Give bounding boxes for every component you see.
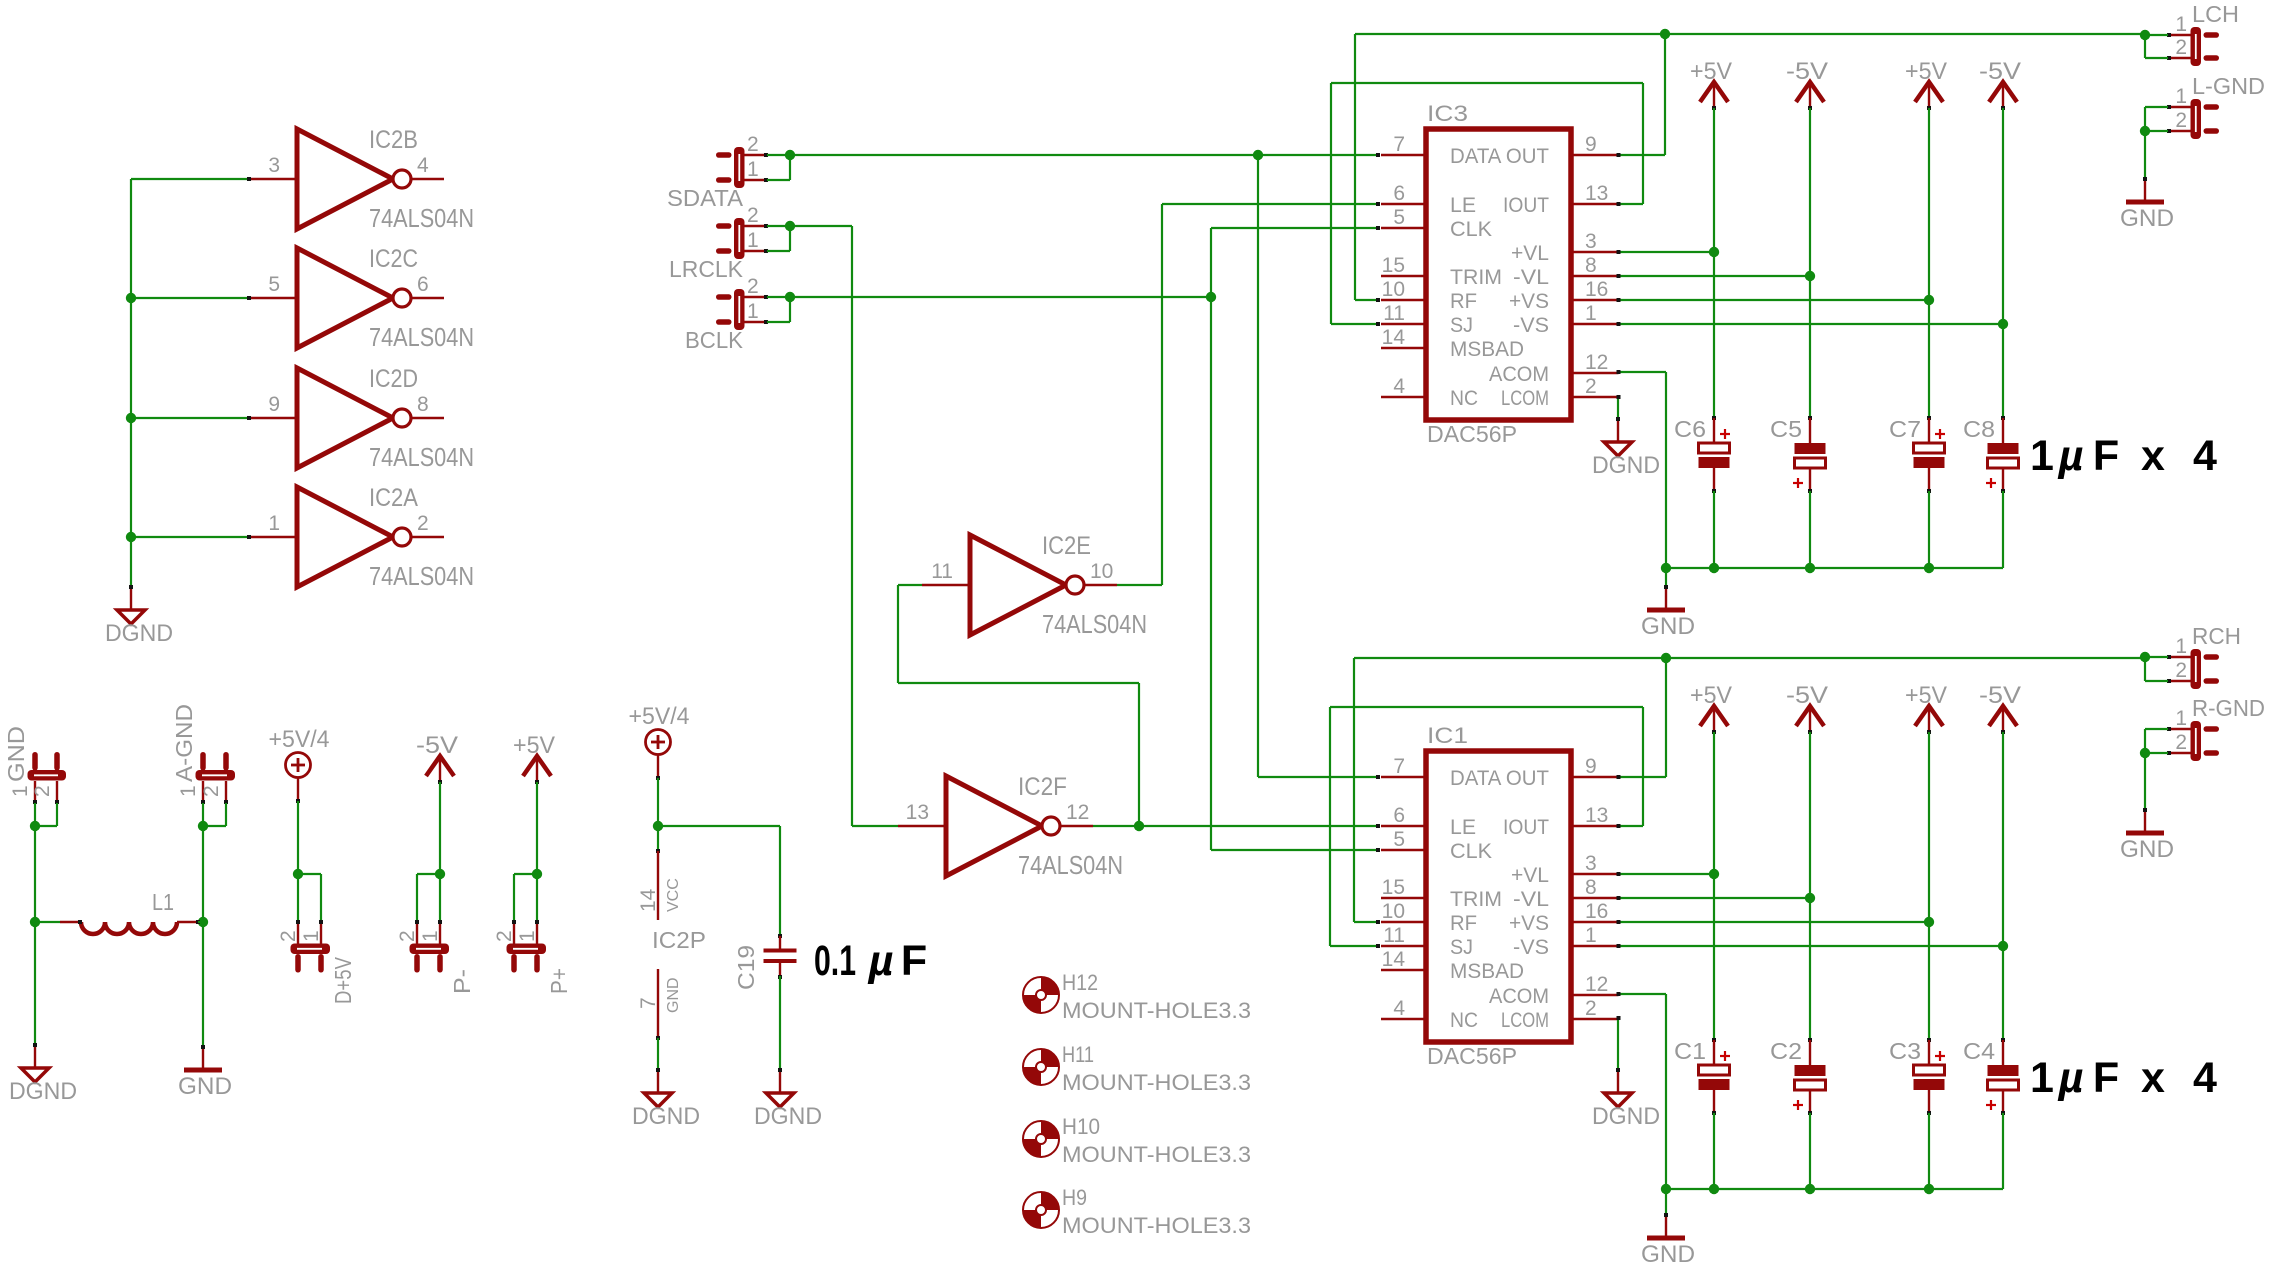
svg-text:2: 2 (277, 930, 300, 942)
svg-text:2: 2 (2175, 36, 2187, 59)
svg-text:IOUT: IOUT (1503, 194, 1549, 217)
svg-text:74ALS04N: 74ALS04N (369, 203, 474, 233)
svg-text:6: 6 (417, 273, 429, 296)
svg-text:DGND: DGND (105, 620, 173, 647)
svg-text:H10: H10 (1062, 1114, 1100, 1139)
svg-text:IC2E: IC2E (1042, 532, 1091, 560)
svg-text:GND: GND (2120, 205, 2174, 232)
svg-text:11: 11 (1383, 924, 1405, 947)
svg-text:1: 1 (2175, 635, 2187, 658)
svg-text:LE: LE (1450, 816, 1476, 839)
svg-text:1: 1 (747, 300, 759, 323)
svg-text:12: 12 (1066, 801, 1089, 824)
svg-text:DATA OUT: DATA OUT (1450, 145, 1549, 168)
svg-text:C8: C8 (1963, 416, 1995, 442)
svg-text:0.1: 0.1 (814, 937, 856, 985)
svg-text:+5V: +5V (513, 732, 555, 759)
svg-text:1: 1 (1585, 302, 1597, 325)
svg-text:IC2P: IC2P (652, 927, 706, 953)
svg-text:IC2F: IC2F (1018, 773, 1067, 801)
svg-text:1: 1 (9, 785, 32, 797)
svg-text:4: 4 (1393, 375, 1405, 398)
svg-text:-VS: -VS (1513, 314, 1549, 337)
svg-text:+VL: +VL (1511, 242, 1549, 265)
svg-text:-5V: -5V (1979, 58, 2021, 85)
svg-text:+5V: +5V (1690, 58, 1732, 85)
svg-text:1: 1 (2175, 13, 2187, 36)
svg-text:+VL: +VL (1511, 864, 1549, 887)
svg-text:C7: C7 (1889, 416, 1921, 442)
svg-text:14: 14 (637, 888, 660, 912)
svg-text:13: 13 (1585, 804, 1608, 827)
svg-text:6: 6 (1393, 804, 1405, 827)
svg-text:1: 1 (2030, 432, 2054, 480)
svg-text:10: 10 (1382, 278, 1405, 301)
svg-text:8: 8 (417, 393, 429, 416)
svg-text:3: 3 (1585, 230, 1597, 253)
svg-text:7: 7 (637, 997, 660, 1009)
svg-text:+VS: +VS (1509, 290, 1549, 313)
svg-text:+5V/4: +5V/4 (269, 726, 330, 753)
svg-text:14: 14 (1382, 326, 1406, 349)
svg-text:IOUT: IOUT (1503, 816, 1549, 839)
svg-text:1: 1 (419, 930, 442, 942)
svg-text:C4: C4 (1963, 1038, 1995, 1064)
svg-text:12: 12 (1585, 351, 1608, 374)
svg-text:LE: LE (1450, 194, 1476, 217)
svg-text:F: F (901, 937, 927, 985)
svg-text:4: 4 (2193, 1054, 2217, 1102)
svg-text:DGND: DGND (1592, 452, 1660, 479)
svg-text:R-GND: R-GND (2192, 695, 2265, 721)
svg-text:IC2A: IC2A (369, 484, 418, 512)
svg-text:6: 6 (1393, 182, 1405, 205)
svg-text:µ: µ (2058, 1054, 2084, 1102)
svg-text:MOUNT-HOLE3.3: MOUNT-HOLE3.3 (1062, 1213, 1251, 1238)
svg-text:13: 13 (906, 801, 929, 824)
svg-text:10: 10 (1382, 900, 1405, 923)
svg-text:MOUNT-HOLE3.3: MOUNT-HOLE3.3 (1062, 998, 1251, 1023)
svg-text:5: 5 (1393, 206, 1405, 229)
svg-text:7: 7 (1393, 133, 1405, 156)
svg-text:RF: RF (1450, 290, 1477, 313)
svg-text:2: 2 (2175, 109, 2187, 132)
svg-text:DATA OUT: DATA OUT (1450, 767, 1549, 790)
svg-text:IC2C: IC2C (369, 245, 418, 273)
svg-text:1: 1 (747, 229, 759, 252)
svg-text:14: 14 (1382, 948, 1406, 971)
svg-text:D+5V: D+5V (330, 956, 356, 1004)
svg-text:P+: P+ (546, 968, 572, 994)
svg-text:x: x (2141, 432, 2165, 480)
svg-text:ACOM: ACOM (1489, 363, 1549, 386)
svg-text:LCOM: LCOM (1501, 387, 1549, 410)
svg-text:9: 9 (268, 393, 280, 416)
svg-text:µ: µ (2058, 432, 2084, 480)
svg-text:4: 4 (417, 154, 429, 177)
svg-text:10: 10 (1090, 560, 1113, 583)
svg-text:11: 11 (1383, 302, 1405, 325)
svg-text:2: 2 (1585, 997, 1597, 1020)
svg-text:8: 8 (1585, 876, 1597, 899)
svg-text:74ALS04N: 74ALS04N (1018, 850, 1123, 880)
svg-text:SDATA: SDATA (667, 185, 744, 211)
svg-text:-5V: -5V (416, 732, 458, 759)
svg-text:DAC56P: DAC56P (1427, 421, 1517, 447)
svg-text:C3: C3 (1889, 1038, 1921, 1064)
svg-text:H12: H12 (1062, 970, 1098, 995)
svg-text:F: F (2093, 432, 2119, 480)
svg-text:2: 2 (2175, 659, 2187, 682)
svg-text:GND: GND (178, 1073, 232, 1100)
svg-text:P-: P- (449, 969, 475, 994)
svg-text:x: x (2141, 1054, 2165, 1102)
svg-text:SJ: SJ (1450, 936, 1473, 959)
svg-text:GND: GND (1641, 613, 1695, 640)
svg-text:SJ: SJ (1450, 314, 1473, 337)
svg-text:GND: GND (665, 977, 682, 1013)
svg-text:+5V: +5V (1905, 682, 1947, 709)
svg-text:-VL: -VL (1513, 266, 1549, 289)
svg-text:11: 11 (931, 560, 953, 583)
svg-text:MSBAD: MSBAD (1450, 338, 1524, 361)
svg-text:C6: C6 (1674, 416, 1706, 442)
svg-text:DGND: DGND (1592, 1103, 1660, 1130)
svg-text:1: 1 (300, 930, 323, 942)
svg-text:12: 12 (1585, 973, 1608, 996)
svg-text:-5V: -5V (1786, 682, 1828, 709)
svg-text:2: 2 (2175, 731, 2187, 754)
svg-text:1: 1 (1585, 924, 1597, 947)
svg-text:2: 2 (396, 930, 419, 942)
svg-text:F: F (2093, 1054, 2119, 1102)
svg-text:16: 16 (1585, 900, 1608, 923)
svg-text:74ALS04N: 74ALS04N (1042, 609, 1147, 639)
svg-text:VCC: VCC (665, 878, 682, 912)
svg-text:DGND: DGND (754, 1103, 822, 1130)
svg-text:2: 2 (747, 133, 759, 156)
svg-text:DAC56P: DAC56P (1427, 1043, 1517, 1069)
svg-text:µ: µ (868, 937, 894, 985)
svg-text:DGND: DGND (632, 1103, 700, 1130)
svg-text:16: 16 (1585, 278, 1608, 301)
svg-text:CLK: CLK (1450, 840, 1492, 863)
svg-text:9: 9 (1585, 133, 1597, 156)
svg-text:74ALS04N: 74ALS04N (369, 442, 474, 472)
svg-text:C2: C2 (1770, 1038, 1802, 1064)
svg-text:DGND: DGND (9, 1078, 77, 1105)
svg-text:LCOM: LCOM (1501, 1009, 1549, 1032)
svg-text:IC2D: IC2D (369, 365, 418, 393)
svg-text:1: 1 (747, 158, 759, 181)
svg-text:C5: C5 (1770, 416, 1802, 442)
svg-text:RF: RF (1450, 912, 1477, 935)
svg-text:-VS: -VS (1513, 936, 1549, 959)
svg-text:C19: C19 (733, 945, 759, 990)
svg-text:5: 5 (268, 273, 280, 296)
svg-text:1: 1 (2030, 1054, 2054, 1102)
svg-text:L1: L1 (152, 889, 174, 915)
svg-text:2: 2 (747, 204, 759, 227)
svg-text:9: 9 (1585, 755, 1597, 778)
svg-text:7: 7 (1393, 755, 1405, 778)
svg-text:-VL: -VL (1513, 888, 1549, 911)
svg-text:1: 1 (2175, 707, 2187, 730)
svg-text:H11: H11 (1062, 1042, 1094, 1067)
svg-text:+5V/4: +5V/4 (629, 703, 690, 730)
svg-text:GND: GND (3, 726, 29, 782)
svg-text:4: 4 (1393, 997, 1405, 1020)
svg-text:LRCLK: LRCLK (669, 256, 744, 282)
svg-text:C1: C1 (1674, 1038, 1706, 1064)
svg-text:2: 2 (200, 785, 223, 797)
svg-text:3: 3 (268, 154, 280, 177)
svg-text:-5V: -5V (1979, 682, 2021, 709)
svg-text:RCH: RCH (2192, 623, 2241, 649)
svg-text:L-GND: L-GND (2192, 73, 2265, 99)
svg-text:LCH: LCH (2192, 1, 2239, 27)
svg-text:3: 3 (1585, 852, 1597, 875)
svg-text:IC1: IC1 (1427, 723, 1468, 748)
svg-text:1: 1 (2175, 85, 2187, 108)
svg-text:15: 15 (1382, 876, 1405, 899)
svg-text:2: 2 (31, 785, 54, 797)
svg-text:2: 2 (747, 275, 759, 298)
svg-text:1: 1 (516, 930, 539, 942)
svg-text:IC2B: IC2B (369, 126, 418, 154)
svg-text:-5V: -5V (1786, 58, 1828, 85)
svg-text:H9: H9 (1062, 1185, 1087, 1210)
svg-text:13: 13 (1585, 182, 1608, 205)
svg-text:TRIM: TRIM (1450, 888, 1502, 911)
svg-text:74ALS04N: 74ALS04N (369, 561, 474, 591)
svg-text:GND: GND (1641, 1241, 1695, 1265)
svg-text:+VS: +VS (1509, 912, 1549, 935)
svg-text:+5V: +5V (1905, 58, 1947, 85)
svg-text:GND: GND (2120, 836, 2174, 863)
svg-text:MSBAD: MSBAD (1450, 960, 1524, 983)
svg-text:74ALS04N: 74ALS04N (369, 322, 474, 352)
svg-text:MOUNT-HOLE3.3: MOUNT-HOLE3.3 (1062, 1070, 1251, 1095)
svg-text:1: 1 (177, 785, 200, 797)
svg-text:CLK: CLK (1450, 218, 1492, 241)
svg-text:NC: NC (1450, 387, 1478, 410)
svg-text:2: 2 (417, 512, 429, 535)
svg-text:1: 1 (268, 512, 280, 535)
svg-text:BCLK: BCLK (685, 327, 744, 353)
svg-text:2: 2 (1585, 375, 1597, 398)
svg-text:8: 8 (1585, 254, 1597, 277)
svg-text:ACOM: ACOM (1489, 985, 1549, 1008)
svg-text:NC: NC (1450, 1009, 1478, 1032)
svg-text:TRIM: TRIM (1450, 266, 1502, 289)
svg-text:IC3: IC3 (1427, 101, 1468, 126)
svg-text:15: 15 (1382, 254, 1405, 277)
svg-text:5: 5 (1393, 828, 1405, 851)
svg-text:4: 4 (2193, 432, 2217, 480)
svg-text:A-GND: A-GND (171, 704, 197, 782)
svg-text:+5V: +5V (1690, 682, 1732, 709)
svg-text:MOUNT-HOLE3.3: MOUNT-HOLE3.3 (1062, 1142, 1251, 1167)
svg-text:2: 2 (493, 930, 516, 942)
